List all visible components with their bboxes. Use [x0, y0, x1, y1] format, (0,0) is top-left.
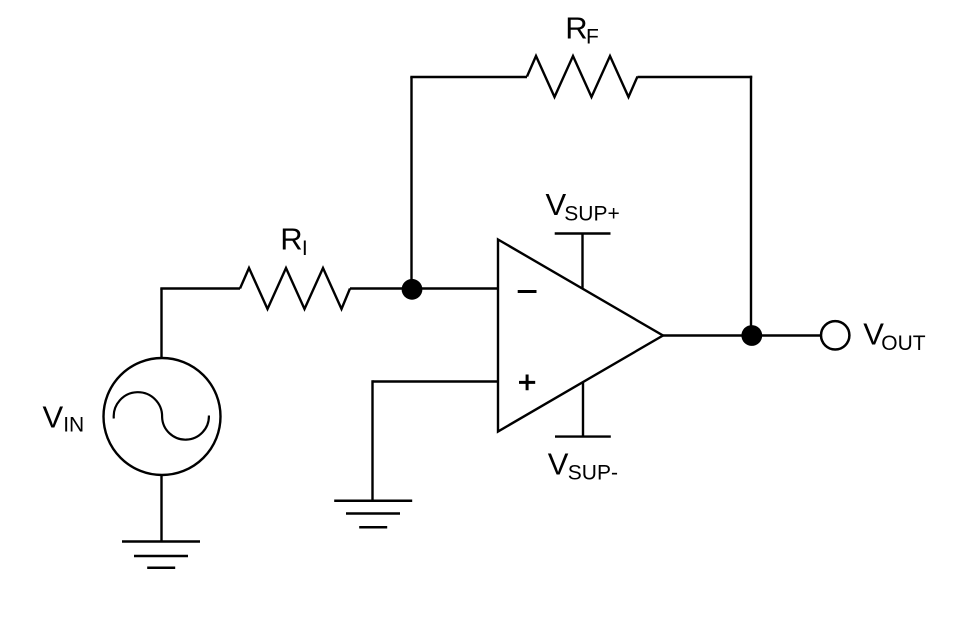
power rail VSUP- [555, 382, 611, 437]
power rail VSUP+ [555, 234, 611, 289]
wire: op-amp output [663, 334, 751, 336]
wire: feedback top left horizontal [410, 76, 527, 78]
label VSUP- [548, 447, 618, 485]
op-amp U1 [498, 240, 663, 432]
wire: source to RI [162, 289, 241, 290]
svg-text:IN: IN [63, 413, 84, 436]
wire: feedback left vertical [410, 77, 412, 289]
voltage source VIN [104, 358, 221, 475]
resistor RF [527, 56, 638, 97]
svg-text:I: I [302, 237, 308, 260]
ground (non-inverting input) [334, 501, 412, 528]
wire: RI to op-amp inverting input [350, 287, 498, 289]
svg-text:SUP-: SUP- [568, 461, 618, 484]
svg-text:F: F [586, 25, 599, 48]
label VSUP+ [546, 187, 620, 226]
wire: source top stub [160, 289, 162, 358]
wire: non-inverting input vertical to ground [371, 380, 373, 500]
label VIN [43, 399, 85, 436]
op-amp non-inverting input marker (+) [519, 375, 535, 391]
wire: non-inverting input horizontal [373, 380, 499, 382]
svg-text:OUT: OUT [881, 332, 926, 355]
ground (source) [122, 542, 200, 568]
wire: output to terminal [751, 334, 820, 336]
label RI [280, 222, 307, 260]
op-amp inverting input marker (-) [518, 290, 537, 293]
label RF [565, 11, 599, 49]
svg-text:SUP+: SUP+ [564, 203, 619, 226]
terminal VOUT [821, 321, 849, 349]
label VOUT [863, 317, 926, 355]
node: inverting input junction [402, 279, 423, 300]
wire: feedback right vertical [750, 76, 752, 336]
svg-text:R: R [565, 11, 587, 46]
svg-text:V: V [548, 447, 569, 482]
wire: source bottom stub [160, 475, 162, 542]
svg-text:R: R [280, 222, 302, 257]
node: output junction [741, 325, 762, 346]
svg-text:V: V [43, 399, 64, 434]
resistor RI [240, 268, 350, 309]
wire: feedback top right horizontal [638, 76, 753, 78]
